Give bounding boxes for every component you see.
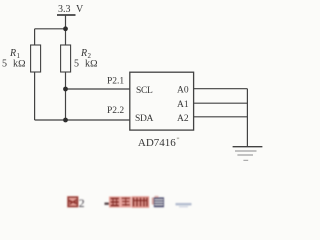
svg-text:2: 2 (79, 196, 85, 210)
svg-text:A1: A1 (177, 100, 189, 110)
svg-text:A2: A2 (177, 114, 189, 124)
svg-text:A0: A0 (177, 86, 189, 96)
svg-text:P2.2: P2.2 (107, 106, 124, 116)
svg-text:3.3: 3.3 (58, 4, 71, 15)
svg-text:V: V (76, 4, 84, 15)
svg-text:R: R (9, 48, 16, 59)
svg-text:SCL: SCL (136, 86, 153, 96)
svg-text:P2.1: P2.1 (107, 77, 124, 87)
svg-text:SDA: SDA (135, 114, 154, 124)
svg-text:AD7416: AD7416 (138, 137, 176, 149)
svg-text:5 kΩ: 5 kΩ (2, 59, 26, 70)
svg-text:R: R (80, 48, 87, 59)
svg-text:5 kΩ: 5 kΩ (74, 59, 98, 70)
